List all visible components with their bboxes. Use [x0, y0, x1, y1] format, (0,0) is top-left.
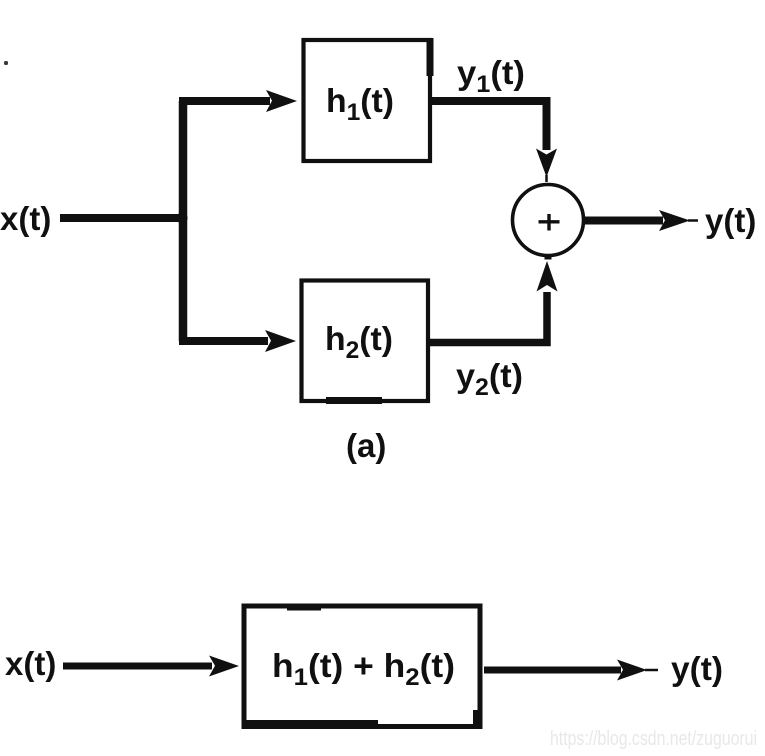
- dash after bottom arrowhead: [645, 669, 658, 672]
- arrowhead into h1: [266, 90, 297, 112]
- wire: h2 output corner to summer: [429, 292, 547, 343]
- node junction dot: [177, 213, 188, 224]
- svg-text:y(t): y(t): [671, 650, 723, 687]
- wire: top branch arm to h1: [179, 97, 270, 105]
- arrowhead of bottom output: [617, 660, 647, 681]
- arrowhead of summer output: [659, 210, 690, 231]
- artifact: tab at circle bottom: [545, 255, 552, 260]
- arrowhead into h2: [265, 330, 296, 352]
- svg-text:x(t): x(t): [0, 200, 51, 237]
- wire: h1 output corner to summer: [431, 101, 547, 150]
- arrowhead up into summer: [537, 261, 558, 292]
- wire: vertical branch line: [179, 101, 188, 341]
- wire: input line from x(t) to junction: [60, 214, 184, 222]
- block h1: [304, 40, 431, 161]
- plus sign in summer: [539, 214, 560, 231]
- artifact: thick bottom-left edge of combined block: [246, 720, 378, 728]
- speck artifact top-left: [4, 61, 8, 65]
- artifact: bump below h2 box bottom edge: [326, 397, 382, 404]
- block h2: [302, 281, 429, 402]
- arrowhead down into summer: [536, 149, 557, 178]
- arrowhead into combined block: [209, 656, 239, 677]
- svg-text:x(t): x(t): [5, 645, 56, 682]
- wire: bottom diagram output: [484, 667, 621, 674]
- wire: summer output: [585, 217, 663, 225]
- wire: bottom branch arm to h2: [179, 337, 268, 345]
- artifact: thick top-right edge of h1 box: [427, 38, 434, 76]
- dash after arrowhead: [688, 219, 698, 222]
- block h1+h2 combined: [244, 606, 480, 727]
- svg-text:https://blog.csdn.net/zuguorui: https://blog.csdn.net/zuguorui: [550, 728, 757, 750]
- svg-text:(a): (a): [346, 427, 386, 464]
- svg-text:y1(t): y1(t): [457, 54, 525, 98]
- artifact: thick bottom-right edge of combined block: [473, 710, 481, 728]
- svg-text:y2(t): y2(t): [456, 357, 523, 401]
- artifact: thick top-left tab of combined block: [287, 604, 321, 611]
- summer adder circle: [513, 185, 584, 256]
- svg-text:y(t): y(t): [705, 202, 756, 239]
- wire: bottom diagram input: [63, 663, 212, 670]
